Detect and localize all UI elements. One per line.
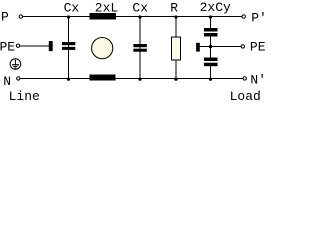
inductor 2xL top winding bbox=[90, 13, 117, 20]
terminal N bbox=[17, 77, 20, 80]
node junction R bottom bbox=[174, 78, 177, 81]
terminal PE left bbox=[16, 44, 19, 47]
node junction Cy top bbox=[209, 15, 212, 18]
svg-text:N': N' bbox=[250, 73, 265, 88]
svg-text:Load: Load bbox=[230, 89, 261, 102]
node junction R top bbox=[174, 15, 177, 18]
svg-text:Line: Line bbox=[9, 89, 40, 102]
wire top rail P to P' bbox=[23, 16, 242, 18]
svg-text:R: R bbox=[170, 0, 178, 15]
svg-text:Cx: Cx bbox=[132, 1, 148, 16]
resistor R bbox=[172, 17, 181, 79]
node junction Cy middle PE bbox=[209, 45, 213, 49]
wire bottom rail N to N' bbox=[20, 78, 243, 80]
wire middle PE right segment bbox=[200, 46, 241, 48]
capacitor Cy1 bbox=[204, 17, 218, 47]
svg-text:P: P bbox=[1, 10, 9, 25]
svg-text:N: N bbox=[3, 74, 11, 89]
terminal PE right bbox=[241, 45, 244, 48]
terminal N' bbox=[243, 77, 246, 80]
node junction Cx1 top bbox=[67, 15, 70, 18]
svg-text:P': P' bbox=[251, 11, 265, 26]
earth symbol (protective earth in circle) bbox=[10, 59, 21, 70]
capacitor Cx1 bbox=[62, 17, 75, 79]
svg-text:2xCy: 2xCy bbox=[200, 0, 231, 15]
svg-text:PE: PE bbox=[0, 40, 15, 55]
capacitor Cy2 bbox=[204, 47, 218, 79]
node junction Cy bottom bbox=[209, 78, 212, 81]
inductor 2xL bottom winding bbox=[90, 75, 116, 81]
svg-text:Cx: Cx bbox=[64, 1, 80, 16]
choke core circle bbox=[92, 38, 113, 59]
node junction Cx1 bottom bbox=[67, 78, 70, 81]
chassis bar left (PE stud) bbox=[49, 41, 53, 51]
capacitor Cx2 bbox=[133, 17, 146, 79]
svg-text:2xL: 2xL bbox=[95, 0, 118, 15]
svg-text:PE: PE bbox=[250, 40, 265, 55]
node junction Cx2 top bbox=[138, 15, 141, 18]
terminal P' bbox=[242, 15, 245, 18]
chassis bar right (PE stud) bbox=[196, 43, 200, 52]
node junction Cx2 bottom bbox=[138, 78, 141, 81]
terminal P bbox=[19, 15, 22, 18]
wire middle PE left segment bbox=[20, 45, 49, 47]
